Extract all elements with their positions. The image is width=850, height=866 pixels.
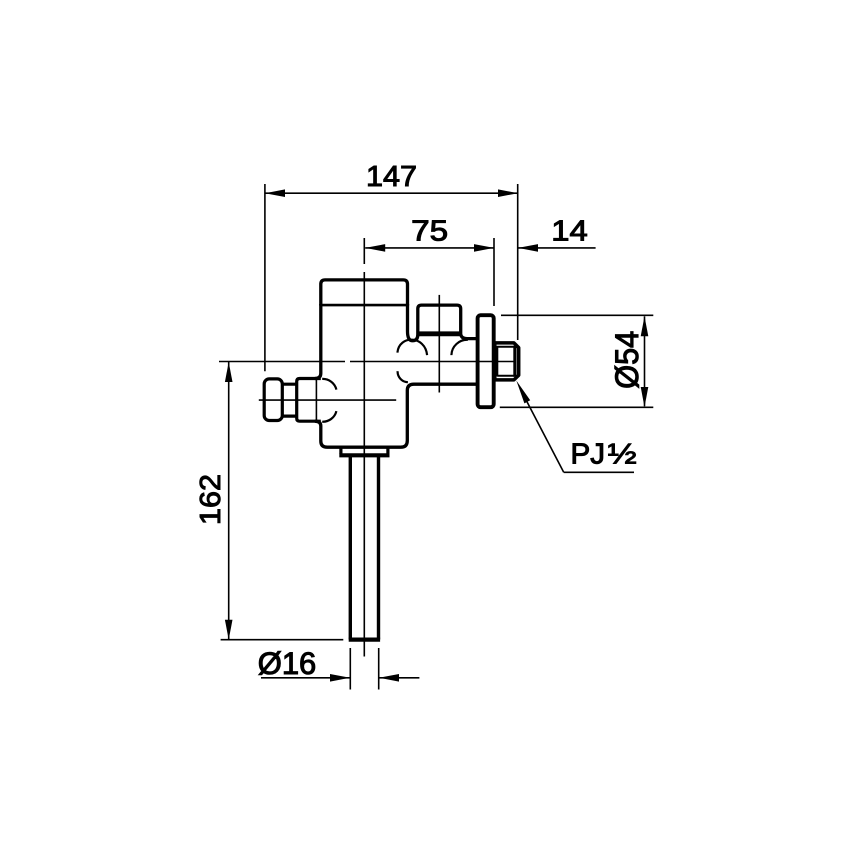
wall flange [478, 315, 494, 407]
tailpipe [349, 457, 380, 640]
fillet arc left of bonnet [397, 340, 427, 355]
valve top cap [321, 280, 408, 306]
center line horizontal main [219, 361, 517, 363]
svg-text:Ø16: Ø16 [258, 647, 317, 681]
svg-text:Ø54: Ø54 [608, 331, 645, 389]
fillet arc body lower right [398, 371, 408, 382]
fillet arc right of bonnet [451, 340, 468, 355]
svg-text:147: 147 [366, 161, 417, 193]
svg-text:14: 14 [551, 215, 588, 247]
svg-text:½: ½ [608, 437, 637, 470]
dimension 14 [518, 247, 596, 249]
center line left port [259, 399, 396, 401]
fillet arc left port lower [322, 411, 336, 422]
handle flange [297, 379, 321, 422]
valve body outline [315, 304, 477, 447]
dimension 75 [365, 238, 494, 306]
dimension D54 [500, 315, 654, 407]
fillet arc left port upper [322, 379, 336, 390]
center line vertical main [363, 238, 365, 657]
center line bonnet [438, 295, 440, 393]
dimension 162 [221, 362, 344, 640]
handle outer cap [264, 379, 282, 421]
dimension 147 [265, 184, 518, 371]
dimension D16 [261, 648, 419, 690]
threaded nipple PJ1/2 [495, 343, 519, 380]
tailpipe step nut [339, 447, 389, 455]
stop valve bonnet [417, 305, 462, 334]
svg-text:PJ: PJ [571, 439, 606, 471]
svg-text:162: 162 [195, 474, 227, 525]
handle neck [282, 384, 296, 416]
svg-text:75: 75 [411, 215, 448, 247]
leader PJ 1/2 [521, 390, 634, 472]
